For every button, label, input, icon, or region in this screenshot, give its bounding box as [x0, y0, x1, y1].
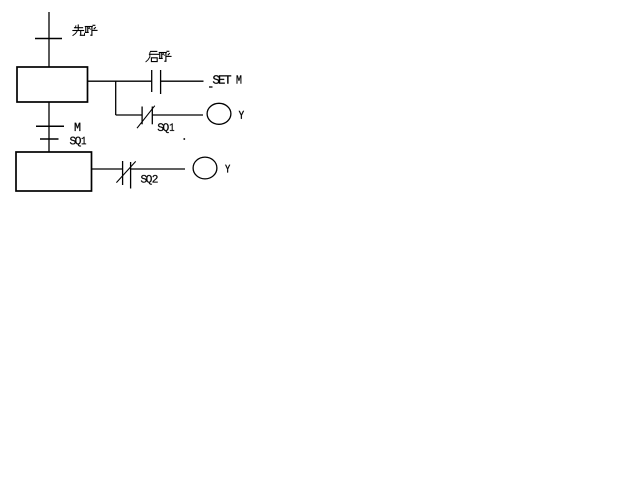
wire: branch down to row 2: [115, 81, 117, 115]
wire: step1 bottom to step2 top: [48, 102, 50, 152]
contact 后呼 bar2: [160, 70, 162, 94]
wire: S2 right to contact SQ2: [92, 168, 123, 170]
transition M crossbar: [36, 125, 64, 127]
coil Y (row2): [207, 103, 231, 124]
step box S1: [17, 67, 88, 102]
wire: row3 right segment: [131, 168, 185, 170]
wire: contact 后呼 to SET M: [161, 80, 204, 82]
underscore mark before SET: [209, 86, 213, 88]
step box S2: [16, 152, 92, 191]
wire: row2 left segment: [116, 114, 142, 116]
NC contact SQ1 bar2: [151, 107, 153, 125]
stray dot: [184, 138, 186, 140]
NC contact SQ1 bar1: [141, 107, 143, 125]
label Y (coil row3): [225, 165, 230, 173]
NC contact SQ2 bar1: [122, 161, 124, 185]
wire: entry rail into step 1: [48, 12, 50, 67]
label 后呼: [146, 51, 159, 61]
transition SQ1 crossbar: [40, 138, 59, 140]
NC contact SQ2 slash: [116, 161, 135, 182]
NC contact SQ2 bar2: [130, 162, 132, 189]
label SET M: [213, 75, 241, 83]
transition contact crossbar (先呼): [35, 38, 62, 40]
wire: row2 right segment: [152, 114, 203, 116]
label SQ1 (transition): [70, 137, 86, 147]
contact 后呼 bar1: [151, 70, 153, 92]
label M (transition): [75, 123, 81, 131]
NC contact SQ1 slash: [137, 106, 155, 129]
label SQ1 (NC contact row2): [158, 123, 174, 133]
coil Y (row3): [193, 157, 217, 179]
label Y (coil row2): [239, 111, 244, 119]
label 先呼: [73, 25, 85, 36]
label SQ2 (NC contact row3): [141, 175, 158, 185]
wire: S1 right to contact 后呼: [88, 80, 152, 82]
